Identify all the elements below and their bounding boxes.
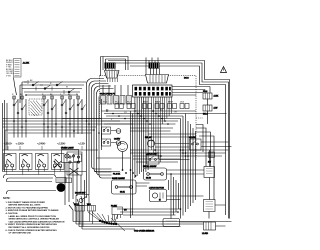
svg-text:WHEN SERVICING CONTROLS. WIRIN: WHEN SERVICING CONTROLS. WIRING PROBLEM [9,219,60,221]
svg-text:BEFORE SERVICING ALL UNITS: BEFORE SERVICING ALL UNITS [9,204,42,207]
svg-text:W: W [66,87,68,89]
junction dots middle bus [106,110,169,125]
fan of wires into junction cluster [77,211,125,231]
bake element [112,173,137,194]
element wattage labels [4,142,86,146]
svg-text:6. CHECK PROPER OPERATION AFTE: 6. CHECK PROPER OPERATION AFTER SERVICIN… [6,229,58,232]
connector P1 loop wires [101,57,129,71]
oven light assembly box [61,148,79,163]
svg-text:LABEL ALL WIRES PRIOR TO DISCO: LABEL ALL WIRES PRIOR TO DISCONNECTION [9,215,57,218]
door switch component [75,193,89,206]
relay K3 contacts [168,104,177,109]
DLB relay circle [145,136,155,147]
spark module box [111,205,128,214]
infinite switch row bottom rail [3,171,121,173]
connector P2 (center) drop wires [146,58,160,75]
infinite switch row top rail [3,149,99,151]
junction dots on left bus [13,120,100,134]
relay contacts block A [102,127,111,134]
wires from P2 pins down to bus [152,97,172,162]
svg-text:P2-BK: P2-BK [111,205,117,207]
plug J3 right column [203,91,219,99]
lower right link wires [117,170,204,219]
lock unit box far right [204,200,216,212]
wires motor to harness [102,131,123,171]
surface element switch contacts [13,101,86,115]
svg-text:BAKE 2605W: BAKE 2605W [112,177,125,180]
relay K6 contacts [127,104,135,109]
surface element section vertical wires [14,96,82,138]
nested corner wires right mid [196,125,214,200]
svg-text:P9-1: P9-1 [203,91,208,93]
left band terminal ticks [28,80,64,94]
svg-text:RECONNECT ALL GROUNDING DEVICE: RECONNECT ALL GROUNDING DEVICES [9,226,50,229]
broil element [143,166,167,180]
notes body text [6,201,65,235]
junction dots center low [122,169,137,177]
right column plug wires [205,87,210,125]
svg-text:GY: GY [124,210,128,212]
svg-text:RELAY: RELAY [145,136,152,139]
latch switch box [146,152,159,164]
connector P1 (left) [105,69,120,83]
wires from P1 down [103,85,128,95]
wires P2 to right plugs [172,87,210,96]
relay coil circle B [116,141,121,146]
svg-text:4-W: 4-W [214,108,218,110]
oven selector switch [67,152,82,175]
door plug B [87,204,96,211]
terminal blocks atop verticals [13,96,80,99]
bottom long wires [69,196,232,229]
svg-text:CONV: CONV [114,139,121,141]
center harness vertical wires [97,97,149,218]
pin number labels [103,102,132,104]
svg-text:L2-RD: L2-RD [202,233,209,235]
terminal box below selector [66,178,72,183]
connector P2 pin block [133,85,173,97]
svg-text:P1-8 BK: P1-8 BK [113,173,121,175]
left bus bundle horizontals [3,119,134,172]
svg-text:CAN CAUSE IMPROPER AND DANGERO: CAN CAUSE IMPROPER AND DANGEROUS OPERATI… [9,220,65,223]
thermal fuse box right column [204,167,215,178]
svg-text:P3 P4 P5 P6 P7: P3 P4 P5 P6 P7 [100,94,116,96]
svg-text:DOC: DOC [184,78,189,80]
svg-text:4. CAUTION:: 4. CAUTION: [6,212,19,215]
relay K4 contacts [180,104,189,109]
mid verticals below oven light [65,163,85,206]
EOC control board dashed outline [100,76,197,161]
svg-text:36-51: 36-51 [120,192,125,194]
svg-text:BAKE: BAKE [155,101,161,104]
connector P2 trapezoid [146,75,169,84]
lock switch box right [189,137,201,150]
aux switch box [74,154,82,162]
svg-text:∿2100·: ∿2100· [4,142,13,146]
left band switch symbols [24,82,75,94]
oven sensor box [163,219,180,227]
svg-text:∿1200·: ∿1200· [16,142,25,146]
warning triangle [221,67,227,73]
plug J4 right column [203,105,217,116]
wire sensor to terminal [180,222,226,226]
relay contacts block B [102,139,111,146]
svg-text:∿1200·: ∿1200· [57,142,66,146]
wires to lock unit [160,160,226,219]
left feeder band wires [3,82,87,172]
latch motor [149,187,167,202]
relay K5 contacts [115,104,123,109]
svg-text:2. MOTOR ONLY TO FEATURES EQUI: 2. MOTOR ONLY TO FEATURES EQUIPPED [6,206,49,209]
relay K1 contacts [143,104,152,109]
svg-text:∿120·: ∿120· [78,142,86,146]
svg-text:BROIL 3400W: BROIL 3400W [143,166,156,168]
relay coil circle A [116,129,121,134]
wire gauge labels scattered [30,80,177,121]
svg-text:5. VERIFY PROPER OPERATION AFT: 5. VERIFY PROPER OPERATION AFTER SERVICI… [6,223,58,226]
legend table (wire color code) [6,59,21,78]
svg-text:4-BK: 4-BK [214,96,219,98]
svg-text:1. DISCONNECT RANGE FROM POWER: 1. DISCONNECT RANGE FROM POWER [6,201,46,204]
svg-text:36-50: 36-50 [146,178,151,180]
long middle bus wires [62,111,227,131]
fan motor symbol [56,178,66,192]
connector P2 plug cap [149,63,160,69]
svg-text:TOD OVEN SENSOR: TOD OVEN SENSOR [134,231,155,233]
svg-text:OVEN LIGHT: OVEN LIGHT [61,148,74,150]
svg-text:V VIO: V VIO [6,75,12,77]
right harness vertical wires [181,114,196,219]
cooling fan loop wires [4,175,57,195]
infinite switch SW4 [52,154,65,175]
notes heading [3,197,65,234]
svg-text:∿2400·: ∿2400· [37,142,46,146]
infinite switch SW1 [4,154,17,175]
label leader ticks [8,146,82,150]
top bus wires L1/L2 [108,61,230,219]
svg-text:P1-3: P1-3 [103,102,108,104]
infinite switch SW3 [36,154,49,175]
mid-right link wires [148,134,196,147]
svg-text:OF UNIT BEFORE USE: OF UNIT BEFORE USE [9,232,32,234]
nested corner wires top bus to left harness [87,70,114,198]
svg-text:-L1-BK: -L1-BK [23,62,30,64]
door plug A [74,204,85,211]
wire code labels top of section [12,94,78,96]
junction dots right mid [154,149,186,157]
wires lock switch to right bus [201,142,232,200]
svg-text:NOTE:: NOTE: [3,197,11,200]
svg-text:LATCH MOTOR: LATCH MOTOR [149,187,164,190]
connector P1 pin headers [100,94,132,104]
svg-text:2-V: 2-V [208,161,212,163]
svg-text:3. SERVICER PLEASE RETURN DIAG: 3. SERVICER PLEASE RETURN DIAGRAM TO RAN… [6,209,60,212]
convection motor M1 [114,139,128,152]
connector P1 plug cap [105,63,116,69]
relay contact row labels [143,101,185,104]
junction cluster bottom center [99,220,118,226]
svg-text:LATCH SW: LATCH SW [146,152,157,155]
svg-text:DOOR SW: DOOR SW [75,193,85,195]
lock plug marks [208,152,215,163]
infinite switch SW2 [20,154,33,175]
bottom right terminal block [202,222,216,235]
warmer element dashed box [29,99,42,116]
dashed link wire [196,117,203,119]
leader wire from legend [14,78,17,96]
right mid horizontals [130,150,229,162]
junction dots lower right [170,149,189,213]
relay K2 contacts [155,104,164,109]
